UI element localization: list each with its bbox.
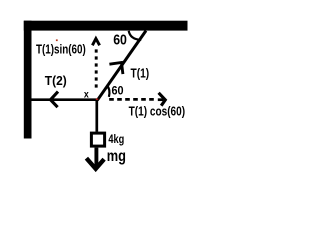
wire from node to mass [95,100,98,132]
node junction red dot [96,98,98,100]
svg-text:T(1): T(1) [131,66,150,80]
svg-text:T(2): T(2) [45,73,67,88]
arrowhead horizontal dashed (right) [159,93,166,106]
svg-text:60: 60 [112,84,124,98]
mg arrowhead (down chevron) [86,158,104,169]
arrowhead T2 (left) [51,92,59,108]
angle arc at node [107,85,110,97]
svg-text:T(1) cos(60): T(1) cos(60) [129,103,186,118]
dashed vertical component line T1 sin [95,49,98,89]
angle arc at ceiling [129,31,142,40]
left wall bar [24,21,32,139]
arrowhead T1 diagonal [109,63,123,75]
svg-text:T(1)sin(60): T(1)sin(60) [36,41,86,56]
svg-text:4kg: 4kg [108,134,124,146]
mg arrow shaft [94,148,98,166]
ceiling bar [24,21,188,31]
wire T2 horizontal line [31,98,98,101]
wire T1 diagonal [97,31,146,101]
arrowhead vertical dashed (up chevron) [92,39,99,46]
dashed horizontal component line T1 cos [109,98,155,101]
red speck artifact [56,39,58,41]
svg-text:mg: mg [107,148,126,165]
svg-text:x: x [84,88,89,100]
shaft of horizontal dashed arrow [158,98,163,101]
mass block 4kg [91,133,104,146]
svg-text:60: 60 [113,32,127,48]
